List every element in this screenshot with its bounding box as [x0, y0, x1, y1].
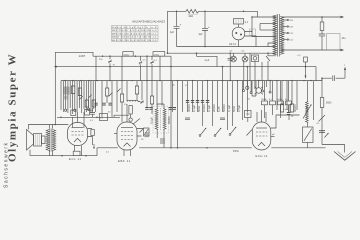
wire coupling box	[247, 118, 249, 123]
wire h link m	[114, 115, 129, 117]
tube V3 grid2	[256, 135, 267, 137]
wire sw drop 5	[192, 81, 194, 112]
tube V3 right stub	[271, 136, 275, 138]
wire bus right jog	[322, 78, 332, 80]
svg-text:6,3: 6,3	[230, 51, 234, 53]
wire drop m12	[156, 81, 158, 106]
transformer tap sec-6	[268, 53, 276, 56]
wire drop m1	[101, 81, 103, 118]
misc value labels	[90, 59, 320, 154]
svg-text:0,1: 0,1	[90, 120, 94, 122]
wire sw drop 9	[212, 81, 214, 126]
resistor R3 box on AVC line	[123, 52, 133, 57]
transformer tap sec-3	[260, 29, 276, 31]
node lamp line left	[167, 52, 169, 54]
node bottom bus c	[206, 147, 208, 149]
wire cap detour	[197, 56, 218, 66]
svg-text:AL4 250 250 -6,0 36 250 700: AL4 250 250 -6,0 36 250 700 9,5	[112, 39, 157, 42]
wire drop m10	[146, 81, 148, 108]
bottom bus right segment	[271, 147, 325, 149]
wire IF2 right drop	[313, 81, 315, 120]
coil bottom pad a	[65, 109, 67, 111]
tube V3 grid	[256, 131, 267, 133]
node bus q1	[247, 80, 249, 82]
wire sw drop 7	[202, 81, 204, 126]
resistor Rc1	[71, 86, 74, 94]
svg-text:0,1µF: 0,1µF	[207, 105, 211, 112]
switch wafer gear circle	[256, 88, 262, 94]
wire rectifier anode 2	[245, 36, 256, 47]
switch wafer comb drop 1	[243, 81, 245, 90]
tube V3 pin top	[257, 110, 266, 122]
transformer tap sec-2	[260, 23, 276, 25]
node speaker top	[55, 124, 57, 126]
coil bottom pad c	[88, 108, 90, 110]
wire sw drop 1	[172, 81, 174, 112]
node tap junction	[267, 52, 269, 54]
capacitor ticks IF1 right a	[169, 108, 172, 110]
tube V2 right stubs	[137, 129, 143, 137]
svg-text:25kΩ: 25kΩ	[154, 54, 160, 56]
capacitor ticks mid c	[108, 103, 111, 105]
resistor row Ra	[262, 101, 268, 105]
capacitor ticks IF2	[287, 113, 291, 115]
wire output top to speaker terminal	[281, 16, 341, 18]
svg-text:0,1: 0,1	[245, 22, 249, 24]
coil box dense drops	[63, 81, 95, 114]
wire	[127, 104, 131, 122]
wire	[121, 102, 123, 122]
svg-text:20000: 20000	[212, 104, 216, 112]
coil box corner	[60, 81, 62, 110]
wire sw drop 12	[227, 81, 229, 130]
capacitor Cs2	[220, 118, 225, 120]
tube V3 left lever	[247, 130, 253, 136]
wire IF1 bottom stubs	[157, 130, 164, 148]
choke L-m (horizontal bumps)	[127, 100, 140, 101]
resistor row Rc	[278, 101, 284, 105]
wire long vertical mid feed	[170, 56, 172, 148]
IF1 core	[160, 108, 162, 131]
wire drop AVC to bus d	[140, 65, 142, 81]
svg-text:10000: 10000	[202, 104, 206, 112]
svg-text:Röhre Ua Ug2 Ug1 Ik Ia S: Röhre Ua Ug2 Ug1 Ik Ia S	[112, 26, 157, 29]
coil bottom pad b	[74, 109, 76, 111]
node AVC a	[102, 55, 104, 57]
resistor Rm3 (vertical)	[129, 106, 132, 115]
ground (chassis chevron)	[334, 152, 356, 161]
node rectifier-cathode	[251, 16, 253, 18]
svg-text:0,25: 0,25	[217, 106, 221, 112]
resistor Rc3	[85, 100, 88, 107]
svg-text:50000: 50000	[277, 99, 283, 101]
IF2 tuning arrow	[303, 105, 311, 119]
output transformer core	[50, 129, 52, 152]
svg-text:150: 150	[289, 27, 293, 29]
grid cap circle middle tube	[129, 118, 132, 121]
svg-text:125: 125	[289, 33, 293, 35]
node screen e	[305, 66, 307, 68]
wire sw drop 10	[217, 81, 219, 112]
svg-text:Jku: Jku	[342, 36, 347, 40]
wire drop AVC to bus e	[146, 56, 148, 80]
node AVC b	[109, 55, 111, 57]
svg-text:EBF 11: EBF 11	[118, 159, 131, 163]
wire bus right end	[336, 77, 345, 79]
tube V2 grid2	[121, 135, 133, 137]
wire drop AVC to bus f	[151, 64, 153, 80]
trimmer V2 right	[140, 129, 144, 133]
transformer primary tap 110	[283, 39, 287, 41]
transformer primary tap 150	[283, 26, 287, 28]
wire antenna top line	[55, 52, 93, 56]
svg-text:4µF: 4µF	[170, 32, 175, 34]
potentiometer box	[303, 127, 314, 143]
svg-text:50: 50	[248, 99, 251, 101]
wire pot bottom	[307, 143, 309, 148]
tube V1 pin top 1	[72, 117, 74, 127]
component small top right	[304, 57, 308, 62]
node lamp cap	[229, 52, 231, 54]
switch lever right col	[319, 115, 326, 122]
capacitor C-right column	[319, 131, 325, 133]
tube V3 HF (envelope)	[252, 122, 270, 150]
svg-text:70: 70	[113, 65, 116, 67]
wire drop AVC to bus g	[159, 56, 161, 80]
wire OT stubs	[49, 125, 52, 156]
wire drop m13	[161, 81, 163, 106]
svg-text:a: a	[344, 65, 346, 67]
wire drop m4	[116, 81, 118, 112]
svg-text:0,1µF: 0,1µF	[227, 105, 231, 112]
wire IF1 top stubs	[157, 104, 164, 109]
wire sw drop 3	[182, 81, 184, 112]
wire	[151, 104, 153, 114]
arrow up right end	[344, 69, 346, 78]
capacitor ticks sw5	[206, 101, 209, 103]
box component Bm1	[100, 114, 108, 121]
wire mid drop r2	[281, 81, 283, 104]
wire mid drop r1	[276, 81, 278, 110]
wire heater line	[177, 46, 275, 48]
wire HT bus top	[168, 10, 187, 12]
wire vertical sec link	[259, 24, 261, 31]
coil bottom rect b	[85, 110, 90, 116]
node J1	[176, 11, 178, 13]
output transformer primary	[46, 130, 49, 151]
tube data table text	[112, 26, 157, 42]
wire bottom left link	[94, 144, 97, 156]
svg-text:0,5: 0,5	[143, 60, 147, 62]
wire drop m9	[140, 81, 143, 104]
resistor R-out (vertical)	[321, 17, 323, 22]
wire HT bus top right part	[200, 10, 258, 12]
box output connector	[327, 34, 341, 51]
wire sw drop 13	[232, 81, 234, 126]
svg-text:15kΩ: 15kΩ	[124, 54, 130, 56]
wire lamp-area drop b	[249, 53, 251, 80]
capacitor C-bus right	[333, 75, 335, 81]
svg-text:5000: 5000	[326, 102, 332, 105]
resistor Rm2	[120, 94, 123, 102]
svg-text:110: 110	[289, 40, 293, 42]
wire mid drop r4	[291, 81, 293, 104]
svg-text:+: +	[208, 25, 210, 29]
wire lamp-area drop d	[261, 62, 263, 81]
component blob	[145, 132, 149, 137]
switch box small	[144, 128, 150, 136]
tube V2 grid	[121, 131, 133, 133]
wire sw drop 14	[237, 81, 239, 112]
node bus q2	[258, 80, 260, 82]
wire drop m5	[121, 81, 123, 94]
svg-text:ECH 11: ECH 11	[256, 154, 269, 158]
switch contact S1	[199, 135, 201, 137]
wire mid drop r0a	[251, 81, 253, 96]
wire drop m2	[106, 81, 108, 103]
wire output bottom to speaker terminal	[281, 49, 341, 51]
component blob2	[160, 138, 165, 144]
svg-text:Olympia Super W: Olympia Super W	[7, 53, 19, 162]
resistor R-filter (zigzag)	[186, 9, 200, 13]
svg-text:µF: µF	[272, 134, 275, 136]
wire top bus corner to transformer	[257, 11, 259, 17]
resistor row Rb	[270, 101, 276, 105]
svg-text:50000: 50000	[222, 104, 226, 112]
wire	[305, 62, 307, 78]
wire	[136, 94, 138, 100]
tube V3 filament	[258, 142, 265, 146]
node bottom w2	[85, 155, 87, 157]
arrow terminal top	[341, 16, 345, 18]
svg-text:0,1: 0,1	[298, 55, 302, 57]
wire drop m6	[126, 81, 128, 102]
svg-text:4µF: 4µF	[199, 34, 204, 36]
speaker driver	[34, 134, 42, 147]
tube V1 output (envelope)	[68, 123, 88, 146]
switch wafer comb drop 7	[269, 81, 271, 91]
speaker magnet	[42, 136, 46, 144]
svg-text:0,5µF: 0,5µF	[237, 105, 241, 112]
wire	[321, 31, 323, 35]
node screen d	[247, 66, 249, 68]
capacitor ticks mid b	[102, 103, 105, 105]
svg-text:220: 220	[289, 20, 293, 22]
node screen b	[170, 66, 172, 68]
tube V1 pin top 2	[77, 112, 79, 123]
svg-text:0,1µF: 0,1µF	[150, 117, 154, 124]
svg-text:ECL 11: ECL 11	[69, 157, 82, 161]
wire lamp line	[168, 52, 275, 54]
dial lamp LP1	[233, 53, 235, 56]
tube V2 anode	[121, 127, 133, 129]
node AVC c	[135, 55, 137, 57]
wire sw drop 4	[187, 81, 189, 112]
capacitor C-res small box	[250, 29, 256, 36]
svg-text:25000: 25000	[261, 99, 267, 101]
node right col top	[321, 77, 323, 79]
resistor V1 right	[91, 130, 94, 136]
main bus	[61, 80, 322, 82]
tube V2 pins bottom	[124, 150, 131, 156]
svg-text:30000: 30000	[293, 104, 297, 112]
capacitor C-top of V1	[90, 108, 95, 117]
wire	[321, 108, 323, 145]
speaker cone	[27, 130, 34, 151]
tube V1 filament	[74, 138, 81, 142]
tube V1 grid2	[72, 134, 84, 136]
wire speaker bottom	[30, 150, 97, 156]
IF1 winding right	[163, 109, 166, 130]
node right block top	[321, 16, 323, 18]
node screen a	[109, 66, 111, 68]
coil bottom rect a	[71, 110, 76, 116]
svg-text:PhSt: PhSt	[233, 149, 239, 153]
wire grid line	[57, 116, 120, 118]
wire sw drop 16	[247, 81, 249, 112]
svg-text:0,1: 0,1	[317, 123, 321, 125]
capacitor ticks IF1 right b	[173, 108, 176, 110]
arrow screen line left	[54, 66, 57, 68]
resistor Rm5	[150, 96, 153, 104]
svg-text:50: 50	[141, 139, 144, 141]
wire box row feeds	[265, 81, 289, 118]
switch contact S3	[229, 134, 231, 136]
node bottom bus b	[177, 147, 179, 149]
socket box with pilot	[252, 55, 259, 62]
IF transformer Tr2 coil	[307, 81, 309, 102]
wire sw drop 2	[177, 81, 179, 148]
transformer tap sec-5	[268, 43, 276, 47]
coil cluster block	[63, 87, 70, 95]
trimmer T-c	[150, 56, 153, 64]
node grid-right	[96, 117, 98, 119]
resistor Rc2	[78, 88, 81, 96]
resistor Rr2	[290, 104, 293, 112]
svg-text:6,3: 6,3	[242, 51, 246, 53]
svg-text:0,1µF: 0,1µF	[192, 105, 196, 112]
transformer primary tap 220	[283, 19, 287, 21]
svg-text:5000: 5000	[197, 105, 201, 112]
node grid-left	[60, 117, 62, 119]
wire rectifier bottom	[238, 40, 240, 47]
capacitor ticks IF1 left b	[149, 108, 152, 110]
capacitor ticks mid a	[94, 103, 97, 105]
cathode resistor box	[73, 151, 80, 156]
node AVC d	[146, 55, 148, 57]
wire AVC line	[93, 55, 171, 57]
bus junction dots	[64, 80, 311, 81]
switch lever grid	[133, 119, 140, 125]
wire drop m11	[151, 81, 153, 96]
tube V1 anode	[72, 127, 84, 129]
svg-text:250: 250	[99, 59, 103, 61]
transformer T1 primary winding	[280, 17, 284, 55]
svg-text:1497: 1497	[79, 54, 86, 58]
transformer T1 secondary winding	[273, 15, 277, 55]
bottom bus left segment	[97, 147, 118, 149]
trimmer Tc2	[88, 95, 91, 98]
IF transformer Tr1 (dashed box)	[153, 107, 169, 134]
tube V2 left stub	[114, 133, 117, 135]
rectifier tube AZ11	[232, 27, 245, 40]
svg-text:+: +	[180, 23, 182, 27]
node J3	[243, 11, 245, 13]
node bottom bus a	[170, 147, 172, 149]
svg-text:0,1: 0,1	[154, 60, 158, 62]
switch wafer comb drop 4	[254, 81, 256, 89]
wire mid drop r5	[296, 81, 298, 110]
wire left vertical drop	[54, 52, 56, 124]
switch contact S2	[214, 135, 216, 137]
resistor Rm4	[135, 86, 138, 94]
node screen c	[222, 66, 224, 68]
capacitor C-el2 (electrolytic)	[202, 11, 208, 46]
resistor R4 box on AVC line	[153, 52, 165, 57]
wire sw drop 6	[197, 81, 199, 112]
resistor Rc4	[92, 100, 95, 107]
wire link V3 to IF2	[271, 115, 300, 128]
resistor Rr1	[280, 104, 283, 112]
resistor R-right column	[321, 78, 323, 97]
arrow right col	[325, 134, 329, 138]
trimmer T-a	[108, 56, 111, 63]
resistor Rm1	[106, 88, 109, 96]
wire to ground	[322, 145, 345, 153]
tube data table	[112, 26, 159, 42]
wire rectifier anode	[245, 17, 252, 32]
wire sw drop 8	[207, 81, 209, 112]
transformer T1 core	[277, 14, 279, 57]
node bus q3	[269, 80, 271, 82]
wire speaker top	[29, 125, 69, 130]
wire drop m8	[136, 81, 138, 86]
svg-text:2µ: 2µ	[173, 85, 176, 87]
capacitor Cs1	[185, 118, 190, 120]
svg-text:0,1: 0,1	[106, 152, 110, 154]
node heater-cap junction	[204, 46, 206, 48]
wire drop AVC to bus c	[121, 56, 123, 80]
tube V2 grid3	[121, 139, 133, 141]
wire sw drop 11	[222, 81, 224, 112]
switch lever mid a	[109, 93, 113, 97]
transformer primary tap 125	[283, 32, 287, 34]
capacitor ticks sw3	[196, 101, 199, 103]
node bottom w1	[61, 155, 63, 157]
capacitor ticks sw1	[186, 101, 189, 103]
trimmer T-b	[139, 56, 142, 64]
trimmer Td	[266, 56, 270, 61]
wire drop m3	[111, 81, 113, 118]
transformer tap sec-4	[252, 30, 276, 37]
svg-text:30: 30	[108, 112, 111, 114]
wire IF2 coil bottom	[307, 123, 309, 128]
svg-text:50000: 50000	[167, 116, 171, 124]
wire long vertical left feed	[167, 11, 169, 53]
tube V1 right stubs	[88, 129, 93, 146]
capacitor block 0,1 above rectifier	[238, 24, 240, 27]
tube V1 pin top 3	[83, 112, 85, 128]
svg-text:30000: 30000	[187, 104, 191, 112]
svg-text:AK2 250 80 -2,6 2,4 100 225: AK2 250 80 -2,6 2,4 100 225 0,3	[112, 29, 157, 32]
capacitor ticks IF1 left a	[145, 108, 148, 110]
svg-text:AK2/AF3/ABC1/AL4/AZ1: AK2/AF3/ABC1/AL4/AZ1	[131, 20, 166, 24]
svg-text:0,1: 0,1	[100, 118, 104, 120]
svg-text:5000: 5000	[232, 105, 236, 112]
tube V2 filament	[124, 143, 131, 147]
coupling box above V3	[245, 111, 252, 118]
svg-text:5000: 5000	[88, 110, 94, 112]
